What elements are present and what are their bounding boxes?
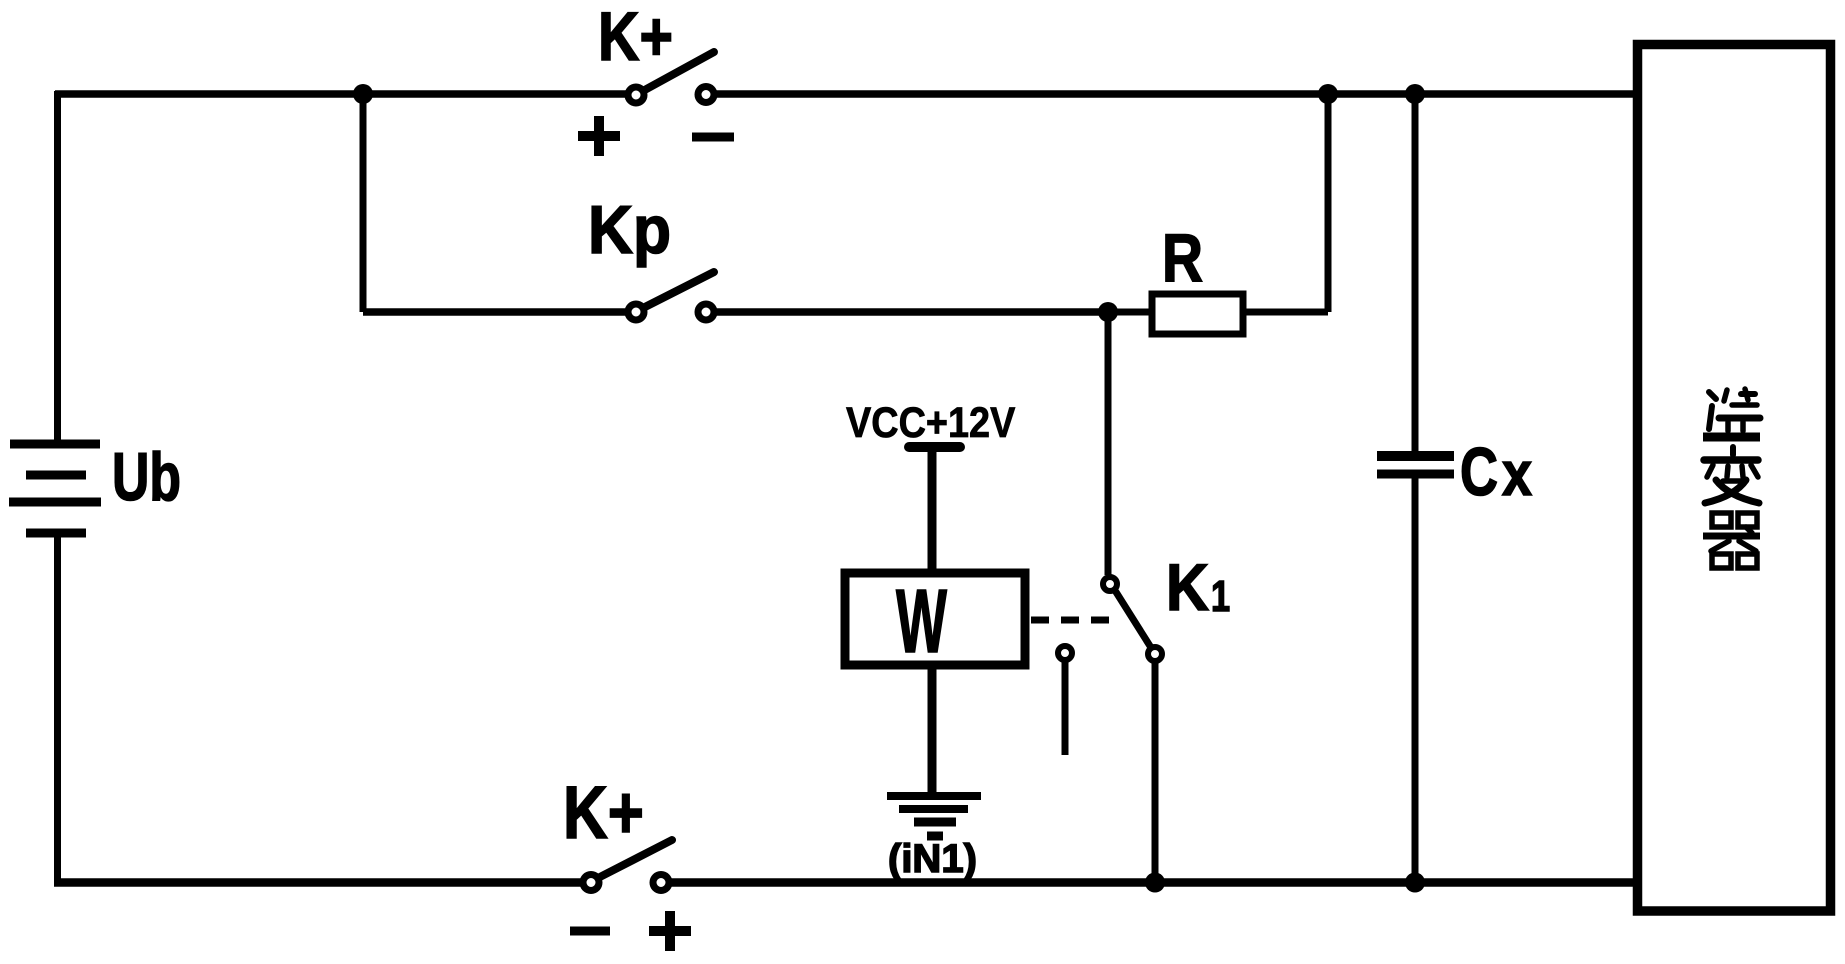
label R xyxy=(1162,220,1203,296)
wire: node to resistor R left lead xyxy=(1108,309,1152,316)
svg-text:(iN1): (iN1) xyxy=(888,837,977,881)
ground symbol line 3 xyxy=(914,818,956,827)
switch K+ top: left contact circle xyxy=(628,87,644,103)
label plus polarity under bottom K+ right contact xyxy=(649,911,691,951)
battery Ub plate 1 long xyxy=(10,440,100,449)
wire: bottom rail left segment xyxy=(54,878,583,887)
capacitor Cx top plate xyxy=(1377,451,1454,461)
wire: riser from resistor up to top rail xyxy=(1325,94,1332,312)
svg-text:Ub: Ub xyxy=(112,438,181,515)
wire: capacitor Cx top lead xyxy=(1412,94,1419,452)
wire: switch K1 down to bottom rail xyxy=(1152,663,1159,883)
svg-text:C: C xyxy=(1460,433,1498,509)
label Cx xyxy=(1460,433,1498,509)
svg-text:VCC+12V: VCC+12V xyxy=(846,398,1015,447)
switch K1: top contact circle xyxy=(1103,577,1117,591)
battery Ub plate 4 short xyxy=(26,529,86,538)
wire: capacitor Cx bottom lead xyxy=(1412,478,1419,883)
switch K+ top: right contact circle xyxy=(698,87,714,103)
switch K+ bottom: blade xyxy=(596,840,672,879)
label inverter character ni (逆) xyxy=(1703,389,1760,437)
label (iN1) ground net xyxy=(888,837,977,881)
svg-text:K: K xyxy=(1166,551,1209,625)
label inverter character qi (器) xyxy=(1703,513,1760,568)
inverter box xyxy=(1638,45,1831,912)
node: junction dot Cx on top rail xyxy=(1405,84,1425,104)
battery Ub plate 2 short xyxy=(26,471,86,480)
switch K+ bottom: right contact circle xyxy=(653,875,669,891)
svg-text:K+: K+ xyxy=(563,772,644,854)
wire: bottom rail right segment xyxy=(669,878,1640,887)
svg-text:1: 1 xyxy=(1211,572,1230,621)
svg-text:x: x xyxy=(1502,440,1532,509)
dashed link from coil W to switch K1 xyxy=(1031,617,1113,624)
svg-text:K+: K+ xyxy=(598,0,673,75)
node: junction dot Cx on bottom rail xyxy=(1405,873,1425,893)
label W inside coil box xyxy=(896,571,947,672)
switch K+ bottom: left contact circle xyxy=(583,875,599,891)
node: junction dot K1 on bottom rail xyxy=(1145,873,1165,893)
switch Kp: right contact circle xyxy=(698,304,714,320)
wire: VCC bar down to relay coil W xyxy=(928,447,937,573)
switch K1: blade xyxy=(1116,592,1150,646)
wire: left vertical from battery to bottom rail xyxy=(54,536,61,886)
node: junction dot on top rail at x=363 xyxy=(353,84,373,104)
label VCC+12V xyxy=(846,398,1015,447)
switch Kp: left contact circle xyxy=(628,304,644,320)
label minus polarity under top K+ right contact xyxy=(692,133,734,142)
capacitor Cx bottom plate xyxy=(1377,470,1454,479)
label K+ top xyxy=(598,0,673,75)
svg-text:W: W xyxy=(896,571,947,672)
label K+ bottom xyxy=(563,772,644,854)
label inverter character bian (变) xyxy=(1704,447,1759,503)
label minus polarity under bottom K+ left contact xyxy=(570,927,610,936)
node: junction dot riser on top rail xyxy=(1318,84,1338,104)
ground symbol line 4 xyxy=(927,832,943,841)
wire: from node down to switch K1 common xyxy=(1105,312,1112,575)
switch Kp: blade xyxy=(641,272,714,309)
VCC supply bar xyxy=(909,442,960,452)
switch K1: bottom contact circle xyxy=(1148,647,1162,661)
wire: open throw contact stem xyxy=(1062,662,1069,755)
wire: left vertical from top rail to battery xyxy=(54,91,61,440)
wire: top rail right segment xyxy=(714,90,1640,98)
wire: Kp rail left segment xyxy=(363,308,628,316)
wire: Kp rail right segment to node xyxy=(714,308,1108,316)
relay coil W box xyxy=(845,573,1025,665)
svg-text:R: R xyxy=(1162,220,1203,296)
wire: vertical drop from top rail node to Kp rail xyxy=(360,94,367,312)
wire: top rail left segment xyxy=(55,90,628,98)
resistor R body xyxy=(1152,294,1243,334)
label K1 xyxy=(1166,551,1209,625)
node: junction dot at resistor tap xyxy=(1098,302,1118,322)
svg-text:Kp: Kp xyxy=(588,191,671,267)
switch K1: open throw contact circle xyxy=(1058,646,1072,660)
ground symbol line 1 xyxy=(887,792,981,800)
ground symbol line 2 xyxy=(899,805,968,813)
label Ub xyxy=(112,438,181,515)
switch K+ top: blade xyxy=(641,52,714,92)
label Kp xyxy=(588,191,671,267)
wire: relay coil W down to ground xyxy=(928,665,937,794)
wire: resistor R right lead to riser xyxy=(1243,309,1328,316)
battery Ub plate 3 long xyxy=(9,498,101,507)
label plus polarity under top K+ left contact xyxy=(578,116,620,156)
